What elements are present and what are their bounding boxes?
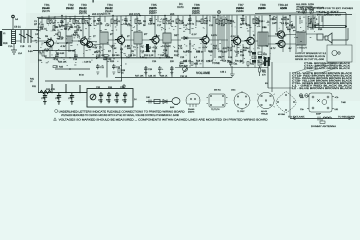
wire: t4-d1: [171, 38, 202, 40]
svg-text:L2 - BLUE BROWN BROWN BLACK: L2 - BLUE BROWN BROWN BLACK: [292, 87, 353, 90]
svg-text:2SA12: 2SA12: [105, 7, 113, 10]
svg-text:AGC: AGC: [166, 45, 171, 48]
svg-text:L1A: L1A: [18, 52, 23, 55]
wire: tone bus: [175, 67, 268, 69]
svg-text:R13: R13: [174, 54, 179, 57]
resistor R3: [57, 32, 64, 41]
small rects row2: [41, 25, 79, 30]
capacitor C16b: [54, 55, 59, 61]
diode D1 symbol: [181, 37, 189, 40]
second row labels under rail: [54, 26, 77, 29]
IF transformer T4: [163, 33, 171, 43]
label outline4: [261, 110, 269, 116]
resistor R18: [225, 19, 233, 25]
wire: t3-tr5: [142, 39, 163, 41]
label TR5: [149, 3, 157, 13]
svg-text:C5 .01: C5 .01: [70, 26, 77, 29]
resistor R32 boost: [40, 90, 51, 93]
tuning capacitor C1A: [19, 30, 26, 43]
capacitor C37 boost: [70, 93, 74, 104]
svg-text:FER: FER: [3, 42, 8, 45]
resistor R17: [228, 46, 233, 51]
svg-text:C15: C15: [140, 50, 145, 53]
svg-text:2SB75: 2SB75: [149, 7, 157, 10]
svg-text:2SA12: 2SA12: [79, 7, 87, 10]
capacitor C24 electrolytic dark bar: [146, 44, 152, 52]
wire: t2-tr4: [108, 39, 134, 41]
svg-text:C1B: C1B: [20, 45, 25, 48]
svg-text:2SB75: 2SB75: [188, 111, 195, 114]
capacitor C12: [123, 18, 131, 25]
svg-text:C9 .05: C9 .05: [68, 50, 75, 53]
output transformer outline: [307, 93, 334, 112]
transistor outline bottom view: [186, 93, 200, 107]
wire: ant to gang: [16, 40, 47, 42]
resistor R35: [191, 62, 199, 66]
tone control box: [87, 89, 133, 108]
svg-text:C27 .02: C27 .02: [183, 60, 192, 63]
svg-text:C31: C31: [308, 20, 313, 23]
wire stubs and filler value labels: [8, 18, 323, 63]
svg-text:2SB75: 2SB75: [192, 12, 200, 15]
svg-text:4.7K: 4.7K: [73, 33, 78, 36]
svg-text:VOLUME: VOLUME: [196, 71, 211, 75]
capacitor Cd1: [318, 117, 320, 121]
svg-text:DUMMY ANTENNA: DUMMY ANTENNA: [311, 125, 337, 128]
note line 1: [55, 110, 185, 114]
svg-text:4P-09A: 4P-09A: [278, 113, 286, 116]
tone box border boost: [87, 89, 133, 108]
resistor R8: [135, 19, 142, 25]
paper background: [0, 0, 360, 129]
upper component labels row (y33-39): [35, 20, 320, 39]
resistor R47: [154, 100, 160, 104]
label C19: [84, 60, 92, 63]
svg-text:2SB56: 2SB56: [236, 10, 244, 13]
resistor R14: [201, 19, 209, 25]
battery lead 2: [268, 62, 292, 92]
verticals boost: [52, 84, 80, 93]
svg-text:CT3B- BLACK GREEN BLACK: CT3B- BLACK GREEN BLACK: [304, 67, 351, 70]
note line 3: [54, 118, 268, 122]
label TR1: [42, 3, 50, 13]
speaker outline: [276, 92, 296, 114]
wire: pcb box top edge: [38, 18, 90, 20]
resistor R15: [213, 44, 218, 49]
wire: left feedback vertical: [38, 19, 40, 93]
top label row3 additions: [79, 12, 200, 15]
svg-text:R17: R17: [209, 51, 214, 54]
wire: verticals into tone area: [52, 84, 80, 93]
battery B1: [265, 60, 268, 88]
svg-text:OA70: OA70: [177, 6, 184, 9]
svg-text:R5 6.8K: R5 6.8K: [56, 52, 65, 55]
resistor R6: [111, 19, 118, 25]
wire: battery to dummy antenna vertical: [289, 72, 291, 118]
resistor R25: [53, 66, 64, 69]
wire: tone bus drops: [180, 62, 261, 68]
more vertical drops: [113, 24, 255, 64]
svg-text:C25: C25: [209, 60, 214, 63]
capacitor C16: [148, 18, 156, 25]
resistor R43: [258, 62, 265, 66]
capacitor C35 boost: [57, 93, 61, 104]
svg-text:2SB54: 2SB54: [236, 7, 244, 10]
wire: main top rail: [37, 15, 352, 18]
tuning capacitor C1B: [26, 30, 33, 43]
scan tick top edge: [93, 0, 94, 3]
resistor R2: [73, 19, 80, 25]
capacitor C26a hanging: [144, 66, 153, 75]
svg-text:PH JACK SW: PH JACK SW: [317, 14, 343, 17]
resistor network block R21: [252, 52, 268, 64]
svg-text:2SA49: 2SA49: [42, 7, 50, 10]
svg-text:C26 50: C26 50: [235, 51, 243, 54]
svg-text:-1.5V: -1.5V: [222, 47, 228, 50]
capacitor C8: [96, 18, 103, 25]
note top right corner: [317, 7, 354, 17]
resistor R23: [103, 55, 112, 61]
wire: tone feed line: [38, 92, 87, 94]
wire: tr1 links: [53, 41, 100, 45]
stage label row y55: [96, 54, 179, 57]
note top right of transistors: [296, 3, 315, 14]
transistor TR9: [275, 31, 285, 38]
capacitor C33: [41, 93, 47, 104]
resistor R28: [118, 69, 126, 75]
wire: vertical c26: [146, 66, 172, 78]
battery terminal minus: [305, 94, 309, 98]
wire: tr6-driver: [209, 40, 258, 41]
capacitor C20: [187, 18, 195, 25]
svg-text:C18: C18: [163, 49, 168, 52]
potentiometer tone: [90, 94, 96, 100]
svg-text:2SC76: 2SC76: [103, 13, 111, 16]
label R24: [58, 60, 67, 63]
resistor R10: [163, 19, 171, 25]
resistor R26: [309, 23, 313, 28]
capacitor C21: [96, 64, 105, 74]
capacitor C32: [98, 92, 103, 103]
junction dots on rails: [61, 15, 347, 28]
svg-text:R20: R20: [255, 22, 260, 25]
wire: av line: [115, 77, 232, 79]
svg-text:2SB22: 2SB22: [192, 7, 200, 10]
oscillator coil T1: [66, 36, 72, 43]
transistor TR4: [115, 35, 125, 45]
svg-text:C10: C10: [105, 24, 110, 27]
capacitor C37: [68, 93, 74, 104]
svg-text:CN Y EXT: CN Y EXT: [319, 10, 340, 13]
svg-text:455 KC/S: 455 KC/S: [92, 13, 103, 16]
svg-text:-1.1V: -1.1V: [191, 33, 197, 36]
svg-text:OSC: OSC: [231, 89, 236, 92]
vertical wires from rail: [49, 16, 313, 42]
svg-text:-6V: -6V: [246, 47, 250, 50]
wire: jack leader curves: [294, 62, 342, 73]
boost overlay: lower-left caps and grounds: [38, 84, 87, 104]
label outline1: [188, 108, 195, 114]
svg-text:R19: R19: [248, 51, 253, 54]
extra can verticals: [52, 16, 323, 58]
small rect r bias: [42, 52, 44, 56]
svg-text:R22: R22: [281, 18, 286, 21]
resistor R32 zigzag: [40, 88, 56, 94]
svg-text:ALL RES. 1/2W: ALL RES. 1/2W: [296, 3, 315, 6]
svg-text:VOLTAGES MEASURED TO CHASSIS G: VOLTAGES MEASURED TO CHASSIS GROUND WITH…: [61, 114, 179, 117]
svg-text:2.2K: 2.2K: [222, 51, 227, 54]
wire: agc link: [33, 51, 75, 58]
svg-text:0.15V: 0.15V: [211, 34, 217, 37]
resistor R13: [178, 44, 183, 49]
svg-text:R9 560: R9 560: [112, 54, 120, 57]
transistor TR6: [200, 35, 210, 45]
ground mark above tone box: [122, 84, 126, 89]
capacitor C14: [146, 47, 151, 53]
capacitor C34: [106, 92, 111, 103]
capacitor C36: [114, 92, 119, 103]
earphone jack J1: [327, 28, 352, 62]
svg-text:T6 OUT: T6 OUT: [299, 47, 307, 50]
tone box interior boost: [90, 92, 127, 102]
svg-text:-1.3V: -1.3V: [230, 35, 236, 38]
resistor R45: [259, 66, 267, 76]
svg-text:C25: C25: [259, 20, 264, 23]
svg-text:C16 30: C16 30: [148, 22, 156, 25]
svg-text:C25: C25: [180, 56, 185, 59]
svg-text:SPKR IS CUT PL-300: SPKR IS CUT PL-300: [295, 58, 325, 61]
capacitor C35: [55, 93, 61, 104]
resistor R19: [243, 46, 248, 51]
wire: right upper feedback rail: [255, 12, 346, 15]
svg-text:TR9,10: TR9,10: [261, 113, 269, 116]
wire: driver-outputs: [268, 34, 325, 44]
svg-text:50u 6V: 50u 6V: [235, 60, 243, 63]
resistor R1: [47, 19, 55, 25]
svg-text:R24 10K: R24 10K: [58, 60, 67, 63]
capacitor C3: [59, 20, 66, 27]
wire y92.5 boost: [38, 92, 87, 94]
driver transformer T5: [258, 32, 268, 46]
svg-text:AD-05: AD-05: [261, 110, 268, 113]
svg-text:455 KC/S: 455 KC/S: [129, 13, 140, 16]
transistor TR1: [44, 38, 54, 48]
svg-text:TO EXT.ANT.: TO EXT.ANT.: [288, 116, 306, 119]
resistor R4: [82, 19, 90, 25]
speaker SP: [325, 33, 332, 43]
diode D2: [163, 100, 167, 104]
wire: antenna rail: [2, 29, 38, 31]
svg-text:C6 3u: C6 3u: [76, 29, 83, 32]
IF transformer T3: [134, 32, 142, 44]
svg-text:R27 10K: R27 10K: [135, 75, 144, 78]
svg-text:R11 2.2K: R11 2.2K: [144, 54, 154, 57]
svg-text:C1A: C1A: [8, 45, 13, 48]
capacitor C29: [179, 62, 188, 68]
svg-text:IFT: IFT: [144, 33, 148, 36]
label TR8: [258, 3, 266, 10]
capacitor C18: [73, 55, 78, 61]
capacitor C23: [112, 64, 121, 74]
svg-text:1.5K: 1.5K: [125, 45, 130, 48]
capacitor C33 boost: [43, 93, 47, 104]
svg-text:C20 5u: C20 5u: [187, 22, 195, 25]
svg-text:4.7K: 4.7K: [178, 47, 183, 50]
svg-text:VOLTAGES SO MARKED SHOULD BE M: VOLTAGES SO MARKED SHOULD BE MEASURED ..…: [59, 118, 268, 121]
output note text block: [295, 52, 327, 61]
wire: antenna lead: [12, 18, 14, 30]
label TR6: [192, 3, 200, 13]
tr1 emitter network: [42, 50, 75, 56]
wire: top-right earphone line A: [315, 25, 346, 27]
svg-text:R29 1K: R29 1K: [160, 75, 168, 78]
dark junction block near battery: [264, 57, 270, 66]
label TR2: [66, 3, 74, 10]
svg-text:C24: C24: [152, 60, 157, 63]
wire: dummy antenna line: [290, 118, 354, 120]
svg-text:-0.9V: -0.9V: [92, 46, 98, 49]
svg-text:C29: C29: [289, 24, 294, 27]
potentiometer VR volume: [183, 67, 188, 73]
capacitor C5: [73, 31, 80, 37]
label rows y52 and y61 mid-right: [183, 51, 253, 63]
IF transformer T2: [100, 32, 108, 44]
svg-text:C15 10: C15 10: [128, 54, 136, 57]
capacitor C output: [317, 34, 323, 40]
junction dot agc: [69, 68, 71, 70]
svg-text:C22 30: C22 30: [196, 51, 204, 54]
svg-text:C7 30: C7 30: [42, 50, 49, 53]
color code table: [292, 72, 353, 90]
svg-text:22K: 22K: [76, 22, 80, 25]
jack note rows: [304, 62, 351, 70]
socket outline bottom view: [257, 92, 275, 108]
junction dots bottom rail: [54, 57, 172, 58]
svg-text:C28 .05: C28 .05: [148, 75, 156, 78]
antenna coil L1: [12, 15, 16, 44]
svg-text:C30 10: C30 10: [180, 75, 188, 78]
svg-text:IFT: IFT: [110, 33, 114, 36]
IF can outline bottom view: [207, 94, 228, 107]
transistor TR10: [276, 40, 286, 47]
svg-text:OUTPUT SPEAKER VC 3.2: OUTPUT SPEAKER VC 3.2: [295, 52, 327, 55]
svg-text:2SC76: 2SC76: [42, 10, 50, 13]
capacitor C38: [122, 92, 127, 103]
battery terminal plus: [299, 94, 303, 98]
svg-text:DET: DET: [174, 34, 179, 37]
svg-text:R18 1K: R18 1K: [196, 60, 204, 63]
label TR7: [236, 3, 244, 13]
svg-text:R15 100: R15 100: [183, 51, 192, 54]
svg-text:C27: C27: [270, 18, 275, 21]
svg-text:C17 .01: C17 .01: [160, 54, 169, 57]
svg-text:455 KC: 455 KC: [214, 89, 221, 92]
label R51 R52: [262, 71, 267, 77]
svg-text:WHEN PHONES PLUG IN: WHEN PHONES PLUG IN: [295, 55, 325, 58]
notes (bottom left): [54, 110, 268, 122]
resistor R9: [127, 44, 131, 49]
transistor TR3: [87, 42, 93, 48]
svg-text:VC THERMISTOR: VC THERMISTOR: [300, 7, 325, 10]
svg-text:2SC76: 2SC76: [79, 12, 87, 15]
output transformer T6: [296, 32, 306, 45]
capacitor C24: [240, 18, 248, 25]
svg-text:T1 OSC: T1 OSC: [237, 110, 245, 113]
label TR9-10: [278, 3, 288, 10]
svg-text:TO RECEIVER: TO RECEIVER: [338, 116, 355, 119]
capacitor C27a hanging: [158, 66, 164, 75]
wire: c27 vertical: [106, 58, 108, 78]
tr1 bias cluster: [3, 32, 66, 62]
svg-text:C19: C19: [183, 24, 188, 27]
svg-text:2SA12: 2SA12: [66, 7, 74, 10]
svg-text:EAR: EAR: [170, 106, 175, 109]
label TR4: [105, 3, 113, 13]
svg-text:T-MK: T-MK: [341, 101, 346, 104]
svg-text:-9V: -9V: [288, 47, 292, 50]
svg-text:84 m: 84 m: [79, 74, 84, 77]
svg-text:C26: C26: [240, 54, 245, 57]
node circled-plus: [217, 10, 220, 13]
svg-text:UNDERLINED LETTERS INDICATE FL: UNDERLINED LETTERS INDICATE FLEXIBLE CON…: [59, 110, 185, 113]
resistor R7: [112, 44, 117, 49]
transistor TR2: [78, 36, 88, 46]
wire: r28 vertical: [121, 48, 123, 81]
capacitor C31: [229, 61, 238, 66]
svg-text:C19 5u: C19 5u: [84, 60, 92, 63]
transistor TR7: [231, 36, 241, 46]
svg-text:2SA49: 2SA49: [188, 108, 195, 111]
svg-text:C17: C17: [157, 24, 162, 27]
coil outline bottom view: [234, 91, 250, 110]
scan edge mark: [0, 31, 2, 46]
svg-text:R23: R23: [110, 60, 115, 63]
svg-text:5-80: 5-80: [28, 50, 33, 53]
scan texture speckle: [35, 16, 317, 67]
svg-text:R32 4.7K: R32 4.7K: [46, 88, 56, 91]
wire: feedback lower line: [45, 80, 122, 82]
earphone E: [172, 98, 180, 105]
resistor R41: [247, 62, 255, 66]
wire: dummy load line: [146, 101, 172, 103]
junction dots lower-left: [51, 92, 80, 93]
svg-text:2SB56: 2SB56: [258, 7, 266, 10]
svg-text:C25: C25: [255, 18, 260, 21]
svg-text:33K: 33K: [204, 22, 208, 25]
top label underline blocks (darker text): [42, 7, 288, 10]
transistor TR5: [150, 35, 160, 45]
ground (antenna): [11, 44, 17, 54]
resistor R16: [216, 19, 224, 25]
converter bias row 2: [40, 28, 83, 33]
svg-text:2K: 2K: [44, 55, 47, 58]
transistor TR8: [245, 37, 255, 44]
svg-text:-8.7V: -8.7V: [270, 47, 276, 50]
resistor R31: [30, 77, 35, 82]
label D1: [177, 2, 184, 9]
wire: top-right earphone line B: [315, 13, 346, 28]
dummy antenna arrows: [293, 117, 351, 121]
capacitor C40: [149, 100, 151, 104]
resistor Rd: [320, 121, 325, 123]
inductor Ld: [323, 117, 331, 119]
svg-text:CB 21: CB 21: [14, 26, 21, 29]
resistor R20: [253, 19, 261, 25]
svg-text:455: 455: [170, 13, 175, 16]
wire: speaker return: [332, 28, 348, 40]
extra verticals left of TR7: [215, 15, 229, 60]
svg-text:C4B 1: C4B 1: [220, 71, 227, 74]
